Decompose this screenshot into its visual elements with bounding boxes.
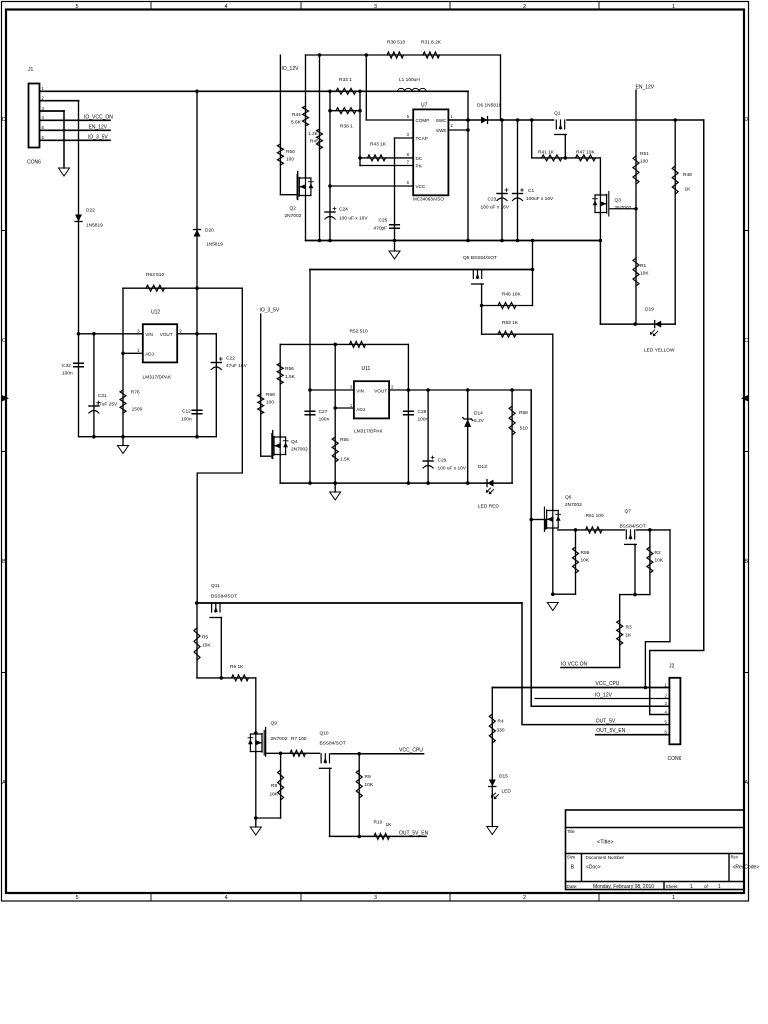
wire TCAP row (395, 137, 414, 139)
svg-text:COMP: COMP (416, 118, 430, 123)
junction gnd rail at R45 (318, 239, 322, 243)
svg-text:10K: 10K (655, 558, 664, 564)
svg-text:VIN: VIN (145, 332, 153, 337)
junction SWC at L1 branch (466, 118, 470, 122)
svg-text:1.5K: 1.5K (285, 374, 296, 380)
wire Q3 source lead (599, 214, 601, 241)
svg-text:A: A (2, 780, 6, 786)
svg-text:VIN: VIN (356, 388, 364, 393)
wire IO_3_5V vertical (260, 314, 262, 456)
svg-text:A: A (744, 780, 748, 786)
svg-text:C: C (2, 338, 6, 344)
junction J2 pin1 at Q7 feed (644, 686, 648, 690)
wire Q9 gate row (266, 752, 320, 754)
svg-text:R10: R10 (374, 820, 383, 826)
svg-text:R9: R9 (365, 774, 371, 780)
svg-text:10K: 10K (365, 782, 374, 788)
wire C23 leg (501, 120, 503, 241)
IC U7 body (413, 109, 448, 195)
wire U11 VOUT row (389, 389, 531, 391)
capacitor C28 (404, 411, 414, 415)
resistor R43 (368, 155, 386, 161)
svg-text:2N7002: 2N7002 (615, 205, 632, 211)
wire top feedback rail (306, 54, 501, 56)
resistor R41 (542, 155, 563, 161)
svg-text:R60: R60 (266, 392, 275, 398)
svg-text:100 uF x 16V: 100 uF x 16V (339, 216, 368, 222)
wire Q3 drain lead (599, 158, 601, 194)
svg-text:R52 510: R52 510 (350, 329, 368, 335)
wire R52 right C28 branch (407, 344, 409, 483)
wire J1 pin2 stub (40, 100, 79, 102)
wire R76 branch (122, 288, 124, 437)
svg-text:D22: D22 (86, 208, 95, 214)
svg-text:2N7002: 2N7002 (271, 736, 288, 742)
resistor R45 1.2K (317, 129, 323, 149)
left mid fold arrow (2, 395, 9, 401)
resistor R47 (576, 155, 596, 161)
wire J1 pin5 EN_12V stub (40, 129, 111, 131)
svg-text:ADJ: ADJ (145, 352, 154, 357)
transistor Q1 (555, 120, 567, 135)
svg-text:R8: R8 (271, 783, 277, 789)
junction LED row at R1 (633, 322, 637, 326)
wire J2 pin6 OUT_5V_EN stub (596, 734, 670, 736)
resistor R59 (573, 547, 579, 573)
ground symbol Q6 (547, 603, 558, 611)
svg-text:Rev: Rev (731, 855, 739, 860)
svg-text:1N5819: 1N5819 (86, 223, 103, 229)
transistor Q5 BSS84 (472, 270, 484, 285)
svg-text:LED: LED (502, 789, 512, 795)
wire C1 leg (517, 120, 519, 241)
junction gnd rail at C25 (393, 239, 397, 243)
resistor R46 (498, 303, 516, 309)
resistor R56 (277, 363, 283, 384)
wire R9 branch (358, 754, 360, 837)
capacitor C25 (390, 225, 400, 229)
svg-text:1N5819: 1N5819 (206, 242, 223, 248)
junction Q1 gate at R41 row (564, 156, 568, 160)
wire OUT_5V_EN row (330, 835, 427, 837)
svg-text:VOUT: VOUT (160, 332, 173, 337)
wire U12 VOUT line (177, 333, 216, 335)
svg-text:R47 10K: R47 10K (576, 150, 595, 156)
svg-text:OUT_5V: OUT_5V (596, 719, 616, 725)
junction 12V rail at VCC branch (328, 90, 332, 94)
junction 12V rail at R33 right (358, 90, 362, 94)
svg-text:EN_12V: EN_12V (89, 125, 108, 131)
transistor Q7 BSS84 (625, 530, 637, 545)
svg-text:J2: J2 (669, 664, 675, 670)
connector J2 body (669, 678, 680, 745)
svg-text:5: 5 (75, 895, 78, 901)
junction top rail at R45 (318, 53, 322, 57)
svg-text:DC: DC (416, 156, 423, 161)
wire C31 leg (93, 334, 95, 437)
wire PK branch vertical (359, 91, 361, 165)
svg-text:R45: R45 (310, 139, 319, 145)
resistor R9 (356, 770, 362, 798)
resistor R76 (120, 390, 126, 413)
svg-text:5.6K: 5.6K (291, 120, 302, 126)
svg-text:<Doc>: <Doc> (586, 865, 601, 871)
svg-text:CON6: CON6 (668, 756, 682, 762)
wire Q4 gate bar (272, 431, 274, 459)
wire R45 branch (319, 55, 321, 241)
junction Q7 row at R2 (648, 528, 652, 532)
transistor Q10 BSS84 (320, 754, 332, 769)
resistor R38 (336, 108, 356, 114)
capacitor C31 polarized (89, 405, 99, 407)
wire C32 leg (78, 334, 80, 437)
junction Q5 gate at R46 (480, 304, 484, 308)
svg-text:IO_VCC_ON: IO_VCC_ON (84, 115, 113, 121)
svg-text:Document Number: Document Number (586, 855, 625, 860)
svg-text:Size: Size (567, 855, 576, 860)
svg-text:IO_3_5V: IO_3_5V (88, 135, 108, 141)
wire 12V switched row (567, 119, 704, 121)
wire C22 leg (215, 334, 217, 437)
svg-text:LM317/DPAK: LM317/DPAK (143, 375, 173, 381)
junction VOUT feed at Q6 gate (529, 518, 533, 522)
svg-text:C: C (744, 338, 748, 344)
connector J1 body (29, 84, 40, 148)
svg-text:Q7: Q7 (625, 509, 632, 515)
svg-text:LED RED: LED RED (478, 504, 499, 510)
junction VOUT at C29 (426, 388, 430, 392)
svg-text:R56: R56 (285, 366, 294, 372)
wire D20 branch vertical (196, 91, 198, 436)
resistor R5 (194, 628, 200, 660)
junction output node at C1 (516, 118, 520, 122)
svg-text:R30 510: R30 510 (387, 40, 405, 46)
svg-text:U12: U12 (151, 310, 160, 316)
wire R48 branch (674, 120, 676, 324)
ground symbol U11 rail (330, 492, 341, 500)
svg-text:J1: J1 (28, 67, 34, 73)
wire J1 pin6 IO_3_5V stub (40, 139, 111, 141)
wire D14 branch (467, 390, 469, 483)
svg-text:100uF x 16V: 100uF x 16V (526, 196, 554, 202)
svg-text:Q3: Q3 (615, 198, 622, 204)
wire Q9 source to gnd (255, 753, 257, 819)
svg-text:R5: R5 (202, 635, 208, 641)
junction gnd rail at SWE (466, 239, 470, 243)
wire gnd rail to LED row (599, 241, 601, 325)
svg-text:VOUT: VOUT (374, 388, 387, 393)
wire U11 top rail R52 (280, 343, 408, 345)
wire R56 branch (279, 344, 281, 437)
svg-text:L1 100uH: L1 100uH (399, 77, 420, 83)
ground symbol at J1 pin3 (59, 168, 70, 176)
svg-text:SWC: SWC (436, 118, 447, 123)
wire COMP to U7 (366, 119, 413, 121)
wire R4 branch (491, 688, 493, 780)
svg-text:1: 1 (718, 884, 721, 890)
wire VCC_CPU row (331, 753, 424, 755)
svg-text:1: 1 (690, 884, 693, 890)
resistor R60 (258, 394, 264, 414)
resistor R6 (232, 675, 249, 681)
wire R41 R47 row (532, 157, 600, 159)
svg-text:IO_3_5V: IO_3_5V (260, 308, 280, 314)
svg-text:47uF 16V: 47uF 16V (226, 363, 248, 369)
wire Q2 gate bar lead (297, 172, 299, 200)
svg-text:D: D (744, 117, 748, 123)
svg-text:D19: D19 (645, 307, 654, 313)
svg-text:<Title>: <Title> (597, 840, 614, 846)
wire D13 row (485, 482, 513, 484)
wire Q10 gate drop (329, 768, 331, 836)
wire J1 pin3 ground drop (63, 111, 65, 168)
zener diode D14 6.2V (464, 419, 471, 427)
junction ADJ at R55 (333, 406, 337, 410)
svg-text:R6 1K: R6 1K (230, 664, 244, 670)
svg-text:R3: R3 (626, 625, 632, 631)
junction R2 row at Q7 gate (633, 593, 637, 597)
svg-text:IO_12V: IO_12V (595, 693, 613, 699)
svg-text:2: 2 (523, 895, 526, 901)
svg-text:3: 3 (374, 4, 377, 10)
wire Q7 row right (637, 529, 671, 531)
svg-text:B: B (571, 865, 575, 871)
svg-text:C12: C12 (182, 409, 191, 415)
resistor R31 (423, 52, 440, 58)
title block outline (566, 810, 745, 890)
svg-text:D13: D13 (478, 464, 487, 470)
wire Q11 row to J2 pin5 (522, 603, 669, 725)
wire U11 ADJ row (335, 407, 354, 409)
resistor R30 (387, 52, 404, 58)
wire R6 row (197, 677, 256, 679)
svg-text:C27: C27 (319, 409, 328, 415)
junction Q9 drain body (254, 731, 258, 735)
transistor Q11 BSS84 (210, 603, 222, 618)
wire COMP branch (365, 55, 367, 120)
svg-text:R51: R51 (640, 151, 649, 157)
svg-text:R38 1: R38 1 (340, 124, 353, 130)
resistor R63 (146, 285, 164, 291)
svg-text:B: B (2, 559, 6, 565)
wire R59 branch (575, 530, 577, 594)
wire R61 row (558, 529, 625, 531)
junction gate row at R8 (279, 752, 283, 756)
wire VCC branch vertical (329, 91, 331, 240)
wire R63 right to Q11 line (197, 288, 242, 603)
resistor R8 (278, 770, 284, 800)
junction VOUT at R58 (510, 388, 514, 392)
junction VOUT line at D20 vertical (195, 332, 199, 336)
wire U12 ground rail (79, 436, 217, 438)
wire J1 pin3 to ground (40, 110, 65, 112)
capacitor C1 polarized (513, 193, 523, 195)
junction DC row at PK branch (358, 156, 362, 160)
svg-text:IO VCC ON: IO VCC ON (561, 662, 588, 668)
junction U12 rail at C12 (195, 435, 199, 439)
junction U11 rail at R55 top (333, 343, 337, 347)
wire Q6 source lead (552, 529, 554, 594)
resistor R50 (277, 144, 283, 165)
svg-text:R1: R1 (640, 263, 646, 269)
LED D15 (489, 780, 496, 787)
wire R46 row (482, 305, 533, 307)
svg-text:VCC_CPU: VCC_CPU (596, 681, 620, 687)
svg-text:OUT_5V_EN: OUT_5V_EN (596, 728, 626, 734)
junction SWE at L1 branch vertical (466, 128, 470, 132)
wire PK row (360, 165, 412, 167)
svg-text:Q5 BSS84/SOT: Q5 BSS84/SOT (463, 255, 497, 261)
resistor R4 (489, 714, 495, 743)
svg-text:1.2K: 1.2K (308, 131, 319, 137)
LED D15 emission arrows (491, 793, 498, 799)
svg-text:3: 3 (374, 895, 377, 901)
junction gnd rail at C1 (516, 239, 520, 243)
junction output node at R41 branch (530, 118, 534, 122)
wire R5 branch (196, 603, 198, 678)
wire SWE row (448, 129, 468, 131)
wire ground stub U12 (122, 437, 124, 446)
svg-text:100: 100 (640, 159, 648, 165)
svg-text:Q4: Q4 (291, 439, 298, 445)
svg-text:C32: C32 (62, 363, 71, 369)
svg-text:MC34063A/SO: MC34063A/SO (413, 197, 444, 202)
junction gnd rail at C23 (500, 239, 504, 243)
svg-text:R31 8.2K: R31 8.2K (421, 40, 442, 46)
svg-text:C29: C29 (438, 458, 447, 464)
resistor R52 (350, 341, 366, 347)
wire ground stub converter (394, 241, 396, 252)
wire U11 VIN row (310, 389, 354, 391)
junction U11 rail at R55 (333, 481, 337, 485)
wire D15 to gnd (491, 787, 493, 827)
wire Q3 gate to EN node (610, 208, 636, 210)
wire LED yellow row (600, 323, 675, 325)
svg-text:470pF: 470pF (374, 226, 388, 232)
junction U12 rail at R76 (121, 435, 125, 439)
wire Q6 source gnd row (553, 593, 576, 595)
junction Q5 row right end (531, 268, 535, 272)
junction R63 line and D20 vertical (195, 286, 199, 290)
wire Q5 row right to gnd rail (532, 241, 534, 306)
wire Q7 gate drop (634, 544, 636, 594)
wire U12 ADJ line (123, 352, 143, 354)
svg-text:10K: 10K (270, 792, 279, 798)
svg-text:<RevCode>: <RevCode> (733, 865, 760, 871)
resistor R33 (336, 88, 356, 94)
resistor R44 (303, 106, 309, 126)
wire Q11 row (197, 602, 522, 604)
title block dividers (566, 828, 745, 890)
svg-text:Q6: Q6 (565, 495, 572, 501)
svg-text:Monday, February 08, 2010: Monday, February 08, 2010 (593, 884, 654, 890)
wire Q7 output to J2 pin1 (645, 530, 670, 688)
wire L1 to SWC corner (467, 91, 469, 240)
svg-text:10K: 10K (581, 558, 590, 564)
LED D19 emission arrows (650, 330, 657, 336)
wire Q6 gate row (531, 519, 545, 521)
junction Q5 feed at U11 gnd rail (308, 481, 312, 485)
junction U11 rail at C28 (407, 481, 411, 485)
svg-text:100n: 100n (418, 417, 429, 423)
capacitor C12 (192, 410, 202, 414)
wire gnd stub U11 (334, 483, 336, 492)
svg-text:5: 5 (75, 4, 78, 10)
capacitor C29 polarized (423, 460, 433, 462)
svg-text:VCC_CPU: VCC_CPU (399, 748, 423, 754)
svg-text:R2: R2 (655, 550, 661, 556)
svg-text:100: 100 (286, 157, 294, 163)
resistor R61 (586, 527, 603, 533)
svg-text:10K: 10K (640, 271, 649, 277)
wire R50 to Q2 gate (280, 194, 297, 196)
svg-text:R46 10K: R46 10K (502, 292, 521, 298)
svg-text:1: 1 (672, 4, 675, 10)
wire top rail right corner to output node (500, 55, 502, 120)
wire Q6 drain lead (552, 334, 554, 509)
junction VCC row (328, 184, 332, 188)
wire U12 VIN line (79, 333, 143, 335)
junction Q9 source row (254, 816, 258, 820)
svg-text:R61 100: R61 100 (586, 513, 604, 519)
svg-text:Q11: Q11 (211, 583, 220, 589)
junction R61 row at R59 (574, 528, 578, 532)
wire IO_12V vertical (279, 55, 281, 195)
resistor R48 (672, 166, 678, 194)
svg-text:D14: D14 (474, 411, 483, 417)
svg-text:510: 510 (520, 426, 528, 432)
svg-text:Q9: Q9 (271, 721, 278, 727)
wire J1 pin2 down to VIN rail (78, 101, 80, 334)
wire C25 branch (394, 138, 396, 241)
wire J2 pin2 IO_12V stub (535, 698, 669, 700)
junction VIN line at C31 branch (92, 332, 96, 336)
svg-text:2N7002: 2N7002 (285, 213, 302, 219)
svg-text:SWE: SWE (436, 128, 446, 133)
svg-text:Q1: Q1 (554, 111, 561, 117)
diode D6 1N5819 (481, 117, 488, 124)
svg-text:LED YELLOW: LED YELLOW (644, 348, 675, 354)
svg-text:Sheet: Sheet (666, 884, 679, 889)
svg-text:1500: 1500 (132, 407, 143, 413)
svg-text:6.2V: 6.2V (474, 418, 485, 424)
svg-text:C24: C24 (339, 207, 348, 213)
wire Q5 row (310, 269, 533, 271)
svg-text:47uF 25V: 47uF 25V (96, 402, 118, 408)
resistor R10 (374, 833, 389, 839)
wire DC row (360, 157, 412, 159)
ground symbol U12 section (118, 446, 129, 454)
svg-text:R41 1K: R41 1K (538, 150, 555, 156)
junction top rail at COMP branch (365, 53, 369, 57)
diode D20 1N5819 (194, 230, 201, 237)
wire R44 branch (305, 55, 307, 178)
svg-text:10K: 10K (202, 643, 211, 649)
wire Q2 source to ground rail (305, 197, 307, 241)
svg-text:OUT_5V_EN: OUT_5V_EN (399, 831, 429, 837)
svg-text:U7: U7 (421, 103, 428, 109)
wire J2 pin1 VCC_CPU row (492, 687, 669, 689)
wire R53 row (482, 333, 553, 335)
wire SWC output row (448, 119, 553, 121)
svg-text:330: 330 (497, 728, 505, 734)
svg-text:R7 100: R7 100 (291, 736, 307, 742)
junction Q3 gate at R51/R1 (634, 207, 638, 211)
wire Q1 gate drop (564, 135, 566, 158)
junction VIN row (308, 388, 312, 392)
wire EN_12V vertical (635, 90, 637, 324)
resistor R53 (498, 331, 516, 337)
